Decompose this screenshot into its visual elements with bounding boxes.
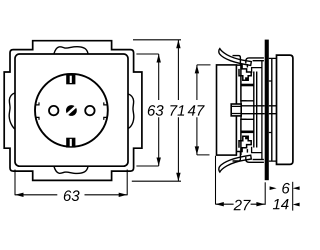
side view: bottom claw screw notch [245,136,248,139]
dim bottom 63: dimension line [15,194,127,196]
front view: top earth clip [66,74,75,84]
side view: pot back wall [240,64,242,155]
side view: center channel lines [241,101,254,120]
side view: mounting plane extension line [215,156,217,204]
dim 47: bottom arrow [195,146,199,155]
side view: top claw end post [246,64,248,68]
dim 6: right arrow [293,186,300,190]
dim 47: label [188,105,205,115]
side view: cover plate bar [265,40,269,181]
side view: bottom claw mechanism cross [237,136,251,151]
front view: left pin hole [49,106,58,115]
dim 27: dimension line [215,203,265,205]
dim bottom 63: left arrow [15,193,24,197]
dim 71: top arrow [176,40,180,49]
dim 14: front face extension line [292,182,294,211]
side view: terminal block [231,104,241,116]
front view: right pin hole [85,106,94,115]
side view: bottom claw clamp bar [241,131,255,134]
dim bottom 63: extension lines [15,170,127,196]
side view: bottom claw retainer line [233,152,241,162]
dim 27: right arrow [256,202,265,206]
side view: pot top edge [246,58,264,64]
dim 71: extension lines [132,40,181,181]
front view: center screw [66,105,77,116]
dim right 63: dimension line [158,54,160,166]
dim 47: extension lines [197,65,211,155]
side view: support box [217,65,237,155]
side view: top claw retainer line [233,56,241,66]
dim right 63: extension lines [136,54,158,166]
side view: bottom claw end post [246,149,248,153]
front view: frame outer stepped outline [4,41,142,181]
dim 71: label [170,105,184,115]
side view: top claw [219,49,252,66]
side view: top claw mechanism cross [237,65,251,80]
side view: central plate front line [271,58,273,161]
dim 27: left arrow [215,202,224,206]
front view: left guide notch [35,102,39,120]
side view: protruding pot front [277,55,293,164]
dim 71: dimension line [177,40,179,181]
dim right 63: bottom arrow [157,158,161,167]
dim 14: label [273,199,289,209]
dim 6: left arrow [270,186,277,190]
side view: inner verticals [253,72,255,148]
dim 14: arrow [293,203,300,207]
dim 71: bottom arrow [176,173,180,182]
dim 27: label [234,200,251,210]
dim 47: top arrow [195,65,199,74]
front view: socket circle [35,74,108,147]
side view: ring step lines [252,68,262,153]
front view: inner plate rounded square [15,54,128,166]
dim 47: dimension line [196,65,198,155]
side view: bottom claw [219,155,252,172]
front view: right tab bump detail [128,94,134,128]
dim right 63: label [148,105,164,116]
front view: top tab bump detail [54,47,88,54]
front view: left tab bump detail [9,93,15,129]
dim bottom 63: right arrow [119,193,128,197]
dim 6: label [282,183,290,194]
side view: pot bottom edge [246,157,264,163]
dim bottom 63: label [64,190,80,201]
side view: top claw clamp bar [241,84,255,87]
front view: bottom tab bump detail [54,167,88,174]
side view: top claw screw notch [245,77,248,80]
front view: bottom earth clip [66,138,75,148]
front view: right guide notch [104,102,108,120]
dim 27: extension under plate [264,182,266,205]
dim right 63: top arrow [157,54,161,63]
